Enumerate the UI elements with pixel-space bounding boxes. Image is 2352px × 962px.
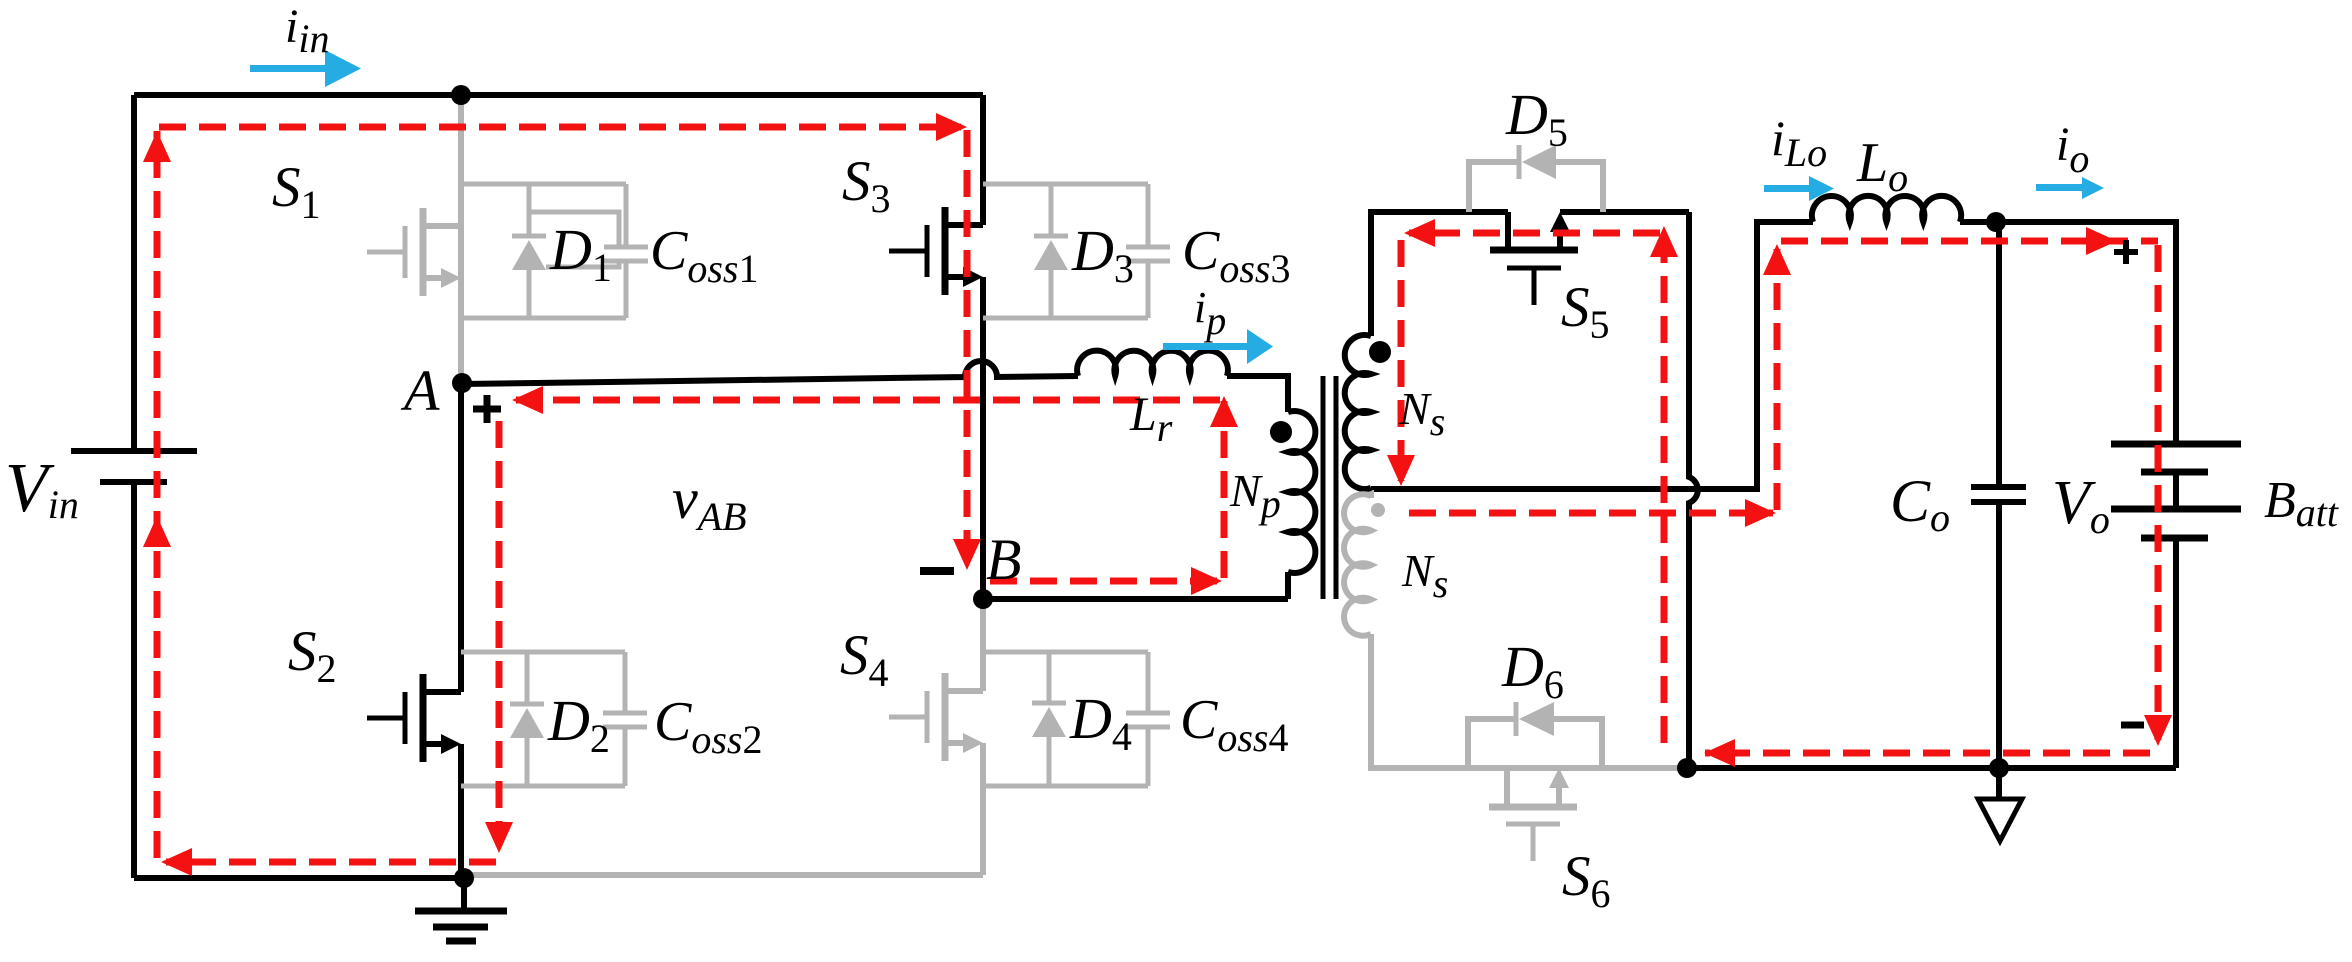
transistor S6 gray [1489,768,1577,861]
wire left side lower [131,482,137,878]
node dot Ns top [1369,341,1391,363]
wire battery bottom to rail [2173,538,2179,768]
wire leg box S4 [983,652,1148,786]
transformer Np winding [1288,411,1315,573]
arrow io [2036,184,2084,191]
wire S2 source to bottom node [458,744,464,878]
arrow red up left 2 [143,516,171,547]
node A plus [473,395,501,423]
inductor Lo [1812,196,1961,222]
wire top rail [134,92,983,98]
capacitor Coss3 [1126,184,1170,318]
arrow iin [250,65,328,72]
arrow iLo [1764,185,1812,192]
wire red output bottom horizontal [1705,750,2150,757]
wire left side upper [131,95,137,451]
ground output arrow [1996,768,2002,799]
arrow red left output bottom [1704,739,1735,767]
wire red freewheel horizontal [516,397,1220,404]
arrow red right center tap [1745,499,1776,527]
capacitor Co [1971,487,2026,502]
wire node A to Lr with hop over S3 rail [462,361,1078,384]
wire S3 rail lower [980,277,986,599]
transistor S3 [889,207,983,295]
wire Co branch [1996,222,2002,768]
wire Np bottom stub [1285,572,1291,599]
wire red Lo leg vertical [1774,249,1781,510]
node dot Ns bottom gray [1371,503,1385,517]
arrow red up Np [1210,396,1238,427]
wire S5 source to right leg [1560,209,1689,215]
wire center tap to Lo leg [1371,222,1813,489]
transformer Ns bottom winding gray [1344,494,1371,636]
arrow red down output [2144,715,2172,746]
transistor S1 [367,208,461,296]
wire gray Ns2 top stub [1368,490,1374,498]
battery Vo/Batt [2111,444,2241,538]
arrow ip [1163,343,1250,350]
output plus [2114,240,2138,264]
wire B to Np bottom [983,596,1288,602]
arrow red right output [2086,227,2117,255]
node ground output [1989,758,2009,778]
wire red S5 return vertical [1661,235,1668,743]
cyan current arrows [250,50,2104,364]
svg-text:B: B [986,527,1021,592]
wire leg box S2 [461,652,625,786]
node dot Np [1270,421,1292,443]
arrow red right B loop [1191,567,1222,595]
wire red output right vertical [2155,245,2162,740]
wire red B loop right vertical [1221,401,1228,578]
wire S3 rail upper [980,95,986,225]
node Lo-Co [1986,212,2006,232]
wire S1 rail gray [458,100,464,376]
capacitor Coss1 [604,184,648,318]
wire S4 rail gray upper [980,605,986,691]
arrow red up left 1 [143,131,171,162]
arrow red right top [936,113,967,141]
arrow red left bottom [161,848,192,876]
node bottom input [454,868,474,888]
wire red A leg vertical [496,421,503,846]
transistor S5 [1490,212,1578,305]
diode D6 gray [1468,702,1602,768]
node B minus [920,567,954,575]
wire red B loop bottom [990,578,1219,585]
wire gray Ns2 bottom to S6 junction [1371,634,1687,768]
arrow red down Ns [1387,455,1415,486]
arrow red up S5 return [1650,226,1678,257]
wire leg box S1 [461,184,626,318]
wire Lr to Np top [1227,376,1288,412]
arrow red up Lo leg [1763,244,1791,275]
wire red bottom horizontal [166,859,496,866]
transformer Ns top winding [1345,335,1371,489]
plus minus signs [473,240,2144,725]
wire battery cell connector [2173,472,2179,509]
red current path [157,127,2158,862]
transistor S2 [367,674,461,762]
capacitor Coss2 [603,652,647,786]
wire Ns top to S5 [1371,212,1508,336]
wire output bottom rail [1687,765,2176,771]
wire red center tap horizontal [1409,510,1773,517]
wire gray bottom return S2 node to S4 [468,872,983,878]
diode D4 [1032,652,1066,786]
node A [452,373,472,393]
inductor Lr [1077,351,1228,376]
diode D3 [1034,184,1068,318]
output minus [2121,722,2144,729]
arrow red left S5 top [1404,219,1435,247]
wire bottom rail input [134,875,464,881]
wire red left vertical [154,131,161,858]
wire Lo to output corner [1960,222,2176,444]
wire S4 rail gray lower [980,743,986,875]
node S5S6 bottom [1677,758,1697,778]
wire A leg upper (A to S2 drain) [458,383,464,692]
wire leg box S3 [983,184,1148,318]
wire red Ns vertical [1398,240,1405,481]
arrow red left to A [512,386,543,414]
transistor S4 [889,673,983,761]
ground input [415,878,507,941]
wire red S5 top horizontal [1409,230,1660,237]
svg-text:A: A [400,358,440,423]
arrow red down A leg [485,822,513,853]
diode D1 [512,184,546,318]
arrow red down S3 [953,539,981,570]
wire S5S6 vertical upper with hop over center tap [1689,212,1698,768]
node B [973,589,993,609]
wire red S3 vertical [964,130,971,562]
diode D5 gray [1469,145,1603,212]
diode D2 [510,652,544,786]
capacitor Coss4 [1126,652,1170,786]
battery Vin [71,451,197,482]
wire red output top horizontal [1781,238,2158,245]
transformer core [1323,376,1336,599]
wire red top horizontal [159,124,961,131]
node top input [451,85,471,105]
